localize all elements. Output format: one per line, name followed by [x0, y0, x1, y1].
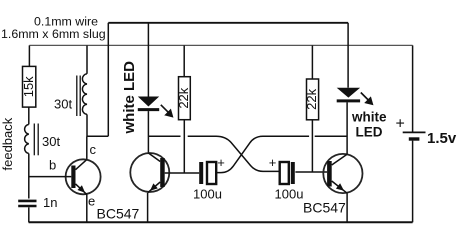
- svg-text:+: +: [396, 116, 405, 133]
- svg-text:22k: 22k: [176, 87, 191, 108]
- svg-text:LED: LED: [356, 125, 383, 140]
- svg-text:30t: 30t: [42, 134, 60, 149]
- svg-text:white: white: [351, 110, 387, 125]
- svg-text:1.5v: 1.5v: [427, 130, 457, 147]
- svg-text:22k: 22k: [304, 88, 319, 109]
- svg-text:e: e: [88, 194, 95, 209]
- svg-text:+: +: [217, 155, 225, 170]
- svg-text:1.6mm x 6mm slug: 1.6mm x 6mm slug: [1, 27, 106, 41]
- svg-text:100u: 100u: [275, 187, 304, 202]
- svg-text:c: c: [90, 142, 97, 157]
- svg-text:white LED: white LED: [121, 61, 138, 135]
- svg-text:+: +: [269, 155, 277, 170]
- svg-text:1n: 1n: [43, 195, 57, 210]
- svg-text:BC547: BC547: [97, 205, 140, 221]
- svg-text:BC547: BC547: [303, 199, 346, 215]
- svg-text:100u: 100u: [193, 187, 222, 202]
- svg-text:15k: 15k: [21, 76, 36, 97]
- svg-text:b: b: [49, 157, 56, 172]
- svg-text:30t: 30t: [54, 96, 72, 111]
- svg-text:feedback: feedback: [0, 117, 15, 170]
